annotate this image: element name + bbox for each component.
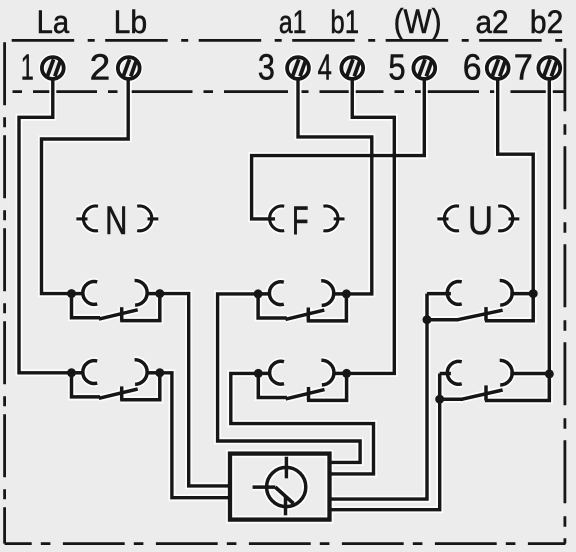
wire contact F upper to electronic unit — [218, 294, 361, 463]
wire contact U lower to electronic unit — [332, 399, 440, 510]
relay coil U — [437, 216, 448, 223]
svg-text:2: 2 — [90, 47, 111, 88]
contact N upper (changeover) right junction dot — [155, 289, 164, 298]
device outline border top (chain line) — [5, 39, 566, 42]
wire terminal 1 (La) to lower-left contact — [19, 79, 72, 373]
wire terminal 7 (b2) to lower-right contact — [546, 79, 553, 374]
triac bottom electrode lead — [282, 497, 289, 515]
terminal 4 screw — [341, 57, 363, 79]
contact F lower (changeover) — [258, 370, 268, 377]
contact N lower (changeover) left junction dot — [67, 368, 76, 377]
electronic unit box — [230, 454, 330, 520]
contact N lower (changeover) right junction dot — [155, 368, 164, 377]
svg-text:Lb: Lb — [114, 4, 148, 40]
wire terminal 7 (b2) to lower-right contact — [548, 79, 551, 374]
triac bottom electrode lead — [284, 497, 288, 515]
terminal 5 screw — [413, 57, 435, 79]
terminal 5 screw — [413, 57, 435, 79]
triac symbol circle — [267, 467, 306, 506]
contact U upper (changeover) — [427, 290, 451, 297]
wire contact F upper to electronic unit — [218, 294, 361, 463]
contact F upper (changeover) — [258, 290, 268, 297]
svg-text:U: U — [468, 198, 493, 243]
contact N lower (changeover) — [72, 371, 82, 375]
contact F upper (changeover) — [258, 292, 268, 296]
wire contact N lower to electronic unit — [160, 373, 228, 498]
contact F lower (changeover) right junction dot — [342, 369, 351, 378]
relay coil F — [334, 216, 345, 223]
contact U lower right junction dot — [545, 369, 554, 378]
contact F upper (changeover) left junction dot — [254, 289, 263, 298]
triac gate diagonal — [275, 487, 293, 503]
electronic unit box — [230, 454, 330, 520]
device outline border bottom (chain line) — [5, 542, 566, 545]
wire terminal 2 (Lb) to upper-left contact — [42, 79, 129, 294]
terminal 1 screw — [42, 57, 64, 79]
terminal 1 screw — [42, 57, 64, 79]
svg-text:1: 1 — [21, 47, 34, 88]
svg-text:b2: b2 — [530, 4, 563, 40]
relay coil N — [76, 216, 87, 223]
svg-text:3: 3 — [258, 47, 275, 88]
svg-text:(W): (W) — [394, 3, 442, 41]
contact F upper (changeover) right junction dot — [342, 289, 351, 298]
contact U lower blade junction dot — [435, 395, 444, 404]
device outline border left (chain line) — [3, 40, 6, 543]
svg-text:a1: a1 — [279, 4, 307, 40]
wire terminal 3 (a1) to upper-middle contact — [298, 79, 372, 294]
svg-text:7: 7 — [514, 47, 533, 88]
wire terminal 4 (b1) to lower-middle contact — [347, 79, 395, 374]
contact N upper (changeover) left junction dot — [67, 289, 76, 298]
terminal 2 screw — [118, 57, 140, 79]
svg-text:a2: a2 — [476, 4, 509, 40]
svg-text:6: 6 — [463, 47, 482, 88]
svg-text:4: 4 — [318, 47, 332, 88]
terminal strip separator (chain line) — [5, 90, 566, 93]
contact U upper (changeover) — [427, 292, 451, 296]
triac gate lead — [253, 485, 276, 489]
wire contact U upper to electronic unit — [332, 320, 428, 499]
relay coil F — [334, 217, 345, 220]
terminal 2 screw — [118, 57, 140, 79]
wire contact N upper to electronic unit gate — [160, 294, 228, 486]
contact N upper (changeover) — [72, 290, 82, 297]
terminal 6 screw — [487, 57, 509, 79]
terminal 3 screw — [287, 57, 309, 79]
relay coil N — [76, 217, 87, 220]
triac gate lead — [253, 484, 276, 491]
terminal 6 screw — [487, 57, 509, 79]
contact U lower (changeover) — [440, 372, 451, 376]
wire contact F lower to electronic unit — [231, 373, 374, 474]
terminal 7 screw — [538, 57, 560, 79]
svg-text:5: 5 — [388, 47, 405, 88]
contact U lower (changeover) — [440, 370, 451, 377]
wire terminal 4 (b1) to lower-middle contact — [347, 79, 395, 374]
wire contact U upper to electronic unit — [332, 320, 428, 499]
terminal 4 screw — [341, 57, 363, 79]
device outline border right (chain line) — [564, 40, 567, 543]
contact F lower (changeover) — [258, 372, 268, 376]
svg-text:N: N — [105, 198, 128, 243]
contact N lower (changeover) — [72, 369, 82, 376]
svg-text:La: La — [37, 4, 70, 40]
wire contact U lower to electronic unit — [332, 399, 440, 510]
wire contact N lower to electronic unit — [160, 373, 228, 498]
terminal 7 screw — [538, 57, 560, 79]
relay coil U — [437, 217, 448, 220]
svg-text:F: F — [292, 198, 309, 243]
wire contact N upper to electronic unit gate — [160, 294, 228, 486]
triac top electrode lead — [285, 457, 289, 479]
wire terminal 5 (W) to coil F — [252, 79, 425, 219]
contact F lower (changeover) left junction dot — [254, 369, 263, 378]
svg-text:b1: b1 — [330, 4, 359, 40]
wire terminal 2 (Lb) to upper-left contact — [42, 79, 129, 294]
contact U upper blade junction dot — [423, 315, 432, 324]
triac top electrode lead — [283, 457, 290, 479]
contact N upper (changeover) — [72, 292, 82, 296]
wire terminal 5 (W) to coil F — [252, 79, 425, 219]
wire terminal 6 (a2) to upper-right contact — [498, 79, 534, 294]
triac gate diagonal — [275, 487, 293, 503]
terminal 3 screw — [287, 57, 309, 79]
triac symbol circle — [267, 467, 306, 506]
wire terminal 6 (a2) to upper-right contact — [498, 79, 534, 294]
contact U upper right junction dot — [529, 289, 538, 298]
wire terminal 1 (La) to lower-left contact — [19, 79, 72, 373]
wire contact F lower to electronic unit — [231, 373, 374, 474]
wire terminal 3 (a1) to upper-middle contact — [298, 79, 372, 294]
